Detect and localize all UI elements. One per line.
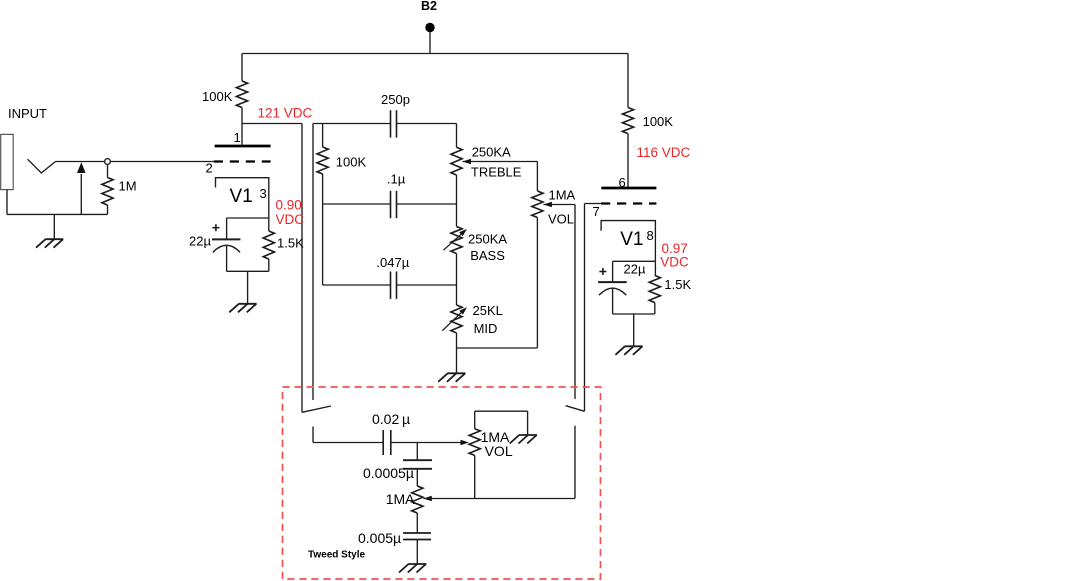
treble wiper arrow — [463, 159, 538, 165]
label 0.0005u — [363, 465, 414, 481]
label 0.02u — [372, 411, 410, 427]
svg-text:0.005µ: 0.005µ — [358, 530, 401, 546]
svg-text:V1: V1 — [230, 186, 253, 207]
resistor 100K plate V1b — [622, 108, 633, 134]
capacitor 0.005u — [403, 533, 431, 540]
pin 7 label — [593, 204, 600, 219]
svg-text:3: 3 — [260, 186, 267, 201]
capacitor 22u V1b — [598, 282, 627, 314]
node jack tip terminal — [105, 159, 111, 165]
ground cathode V1b — [615, 346, 642, 355]
svg-text:100K: 100K — [336, 155, 367, 170]
resistor 1.5K V1a — [263, 218, 274, 271]
wire grid pin 7 — [585, 203, 603, 205]
svg-text:0.90: 0.90 — [276, 198, 302, 213]
wire slope branch — [322, 124, 324, 148]
potentiometer 1MA VOL — [532, 191, 543, 218]
svg-text:0.02 µ: 0.02 µ — [372, 411, 410, 427]
label 0.005u — [358, 530, 401, 546]
capacitor 250p — [391, 110, 397, 137]
label .1u — [387, 171, 406, 186]
svg-text:Tweed Style: Tweed Style — [308, 550, 365, 561]
resistor 100K plate V1a — [236, 81, 247, 108]
label 1.5K B — [664, 277, 691, 292]
capacitor 22u V1a — [212, 239, 240, 271]
bass rheostat arrow — [443, 229, 467, 250]
potentiometer 1MA tweed VOL — [469, 429, 480, 456]
switch SW1 blade — [302, 406, 331, 412]
svg-text:2: 2 — [206, 161, 213, 176]
wire R 100K to plate pin 6 — [627, 134, 629, 188]
wire grid down to switch pole — [584, 204, 586, 412]
svg-text:1MA: 1MA — [386, 491, 415, 507]
svg-text:100K: 100K — [202, 89, 233, 104]
label 22u B — [624, 262, 646, 277]
wire tweed out up to switch — [574, 426, 576, 499]
node B2 label — [421, 0, 437, 13]
svg-text:22µ: 22µ — [189, 234, 211, 249]
wire tweed vol bottom — [474, 455, 476, 498]
label Tweed Style — [308, 550, 365, 561]
svg-text:VOL: VOL — [485, 443, 513, 459]
jack tip contact — [28, 159, 56, 173]
wire to cap 22u A — [226, 218, 228, 239]
label 100K right — [643, 114, 674, 129]
wire R 1M to ground bus — [107, 205, 109, 214]
svg-text:VDC: VDC — [276, 212, 305, 227]
label 250p — [381, 92, 410, 107]
ground tweed vol — [510, 435, 537, 444]
capacitor 22u V1b plus — [599, 268, 606, 275]
potentiometer 1MA tweed tone — [412, 486, 423, 513]
wire to ground B — [633, 314, 635, 346]
wire R 100K to plate pin 1 — [241, 108, 243, 147]
wire 0.005u to ground — [416, 540, 418, 565]
resistor 1M grid — [102, 178, 113, 206]
label 250KA bass — [468, 232, 507, 264]
capacitor 0.0005u — [403, 460, 432, 469]
label 0.90 VDC — [276, 198, 305, 227]
wire B2 to bus — [429, 32, 431, 54]
wire cathode junction V1b — [613, 260, 656, 262]
label 1MA VOL tweed — [481, 429, 513, 459]
wire switch out to 0.02u — [313, 427, 383, 443]
wire tip to R 1M — [107, 164, 109, 177]
svg-text:250KA: 250KA — [472, 144, 511, 159]
wire right rail to treble — [456, 124, 458, 148]
wire cathode bottom A — [227, 270, 269, 272]
svg-text:8: 8 — [647, 228, 654, 243]
mid rheostat arrow — [442, 307, 467, 331]
svg-text:25KL: 25KL — [473, 303, 503, 318]
label 1.5K A — [277, 236, 304, 251]
label 121 VDC — [258, 106, 313, 121]
label 116 VDC — [637, 145, 691, 160]
label .047u — [376, 255, 409, 270]
wire tone stack bottom — [457, 347, 538, 349]
wire 0.02u to vol wiper — [391, 440, 469, 446]
wire grid V1a — [56, 161, 214, 163]
svg-text:22µ: 22µ — [624, 262, 646, 277]
svg-text:250KA: 250KA — [468, 232, 507, 247]
wire bus to R 100K left — [241, 54, 243, 82]
triode V1b cathode — [601, 221, 655, 262]
wire switch contact left vertical — [312, 124, 314, 401]
switch SW2 blade — [566, 406, 585, 412]
wire vol wiper down to switch — [574, 205, 576, 400]
wire to input ground — [53, 214, 55, 239]
svg-text:INPUT: INPUT — [8, 106, 47, 121]
svg-text:1M: 1M — [119, 179, 137, 194]
vol wiper arrow — [543, 202, 575, 208]
svg-text:TREBLE: TREBLE — [471, 165, 522, 180]
ground cathode V1a — [229, 304, 256, 313]
wire node down to 0.0005u — [416, 443, 418, 461]
resistor 1.5K V1b — [649, 261, 660, 314]
ground input jack — [36, 239, 63, 248]
triode V1b plate — [601, 187, 656, 190]
label V1 b — [620, 229, 643, 250]
wire cathode bottom B — [613, 313, 655, 315]
wire bass to mid — [456, 254, 458, 306]
svg-text:100K: 100K — [643, 114, 674, 129]
svg-text:V1: V1 — [620, 229, 643, 250]
capacitor .047u — [391, 272, 397, 299]
ground tone stack — [438, 373, 465, 382]
wire treble out to vol — [536, 162, 538, 192]
wire cathode junction V1a — [227, 217, 269, 219]
label 250KA treble — [471, 144, 522, 179]
svg-text:.1µ: .1µ — [387, 171, 406, 186]
wire bus to R 100K right — [627, 54, 629, 108]
label 1MA vol — [548, 188, 576, 227]
wire jack sleeve — [7, 190, 108, 215]
potentiometer 25KL MID — [451, 305, 462, 333]
wire mid to bottom — [456, 333, 458, 348]
svg-text:.047µ: .047µ — [376, 255, 409, 270]
svg-text:1.5K: 1.5K — [277, 236, 304, 251]
resistor 100K slope — [317, 147, 328, 174]
label 100K left — [202, 89, 233, 104]
wire 1MA to 0.005u — [416, 513, 418, 533]
svg-text:1.5K: 1.5K — [664, 277, 691, 292]
triode V1b grid — [601, 202, 656, 204]
triode V1a grid — [214, 160, 271, 162]
wire vol bottom — [536, 218, 538, 349]
wire .047u branch — [323, 284, 457, 286]
pin 6 label — [619, 175, 626, 190]
tweed style dashed box — [283, 387, 601, 579]
svg-text:7: 7 — [593, 204, 600, 219]
svg-text:0.0005µ: 0.0005µ — [363, 465, 414, 481]
wire 0.0005u to 1MA — [416, 469, 418, 486]
capacitor 22u V1a plus — [212, 224, 219, 231]
wire slope rail down — [322, 174, 324, 285]
jack J1 body — [1, 134, 14, 189]
label 0.97 VDC — [660, 241, 689, 269]
svg-text:6: 6 — [619, 175, 626, 190]
wire plate junction to switch pole — [242, 123, 302, 125]
svg-text:VOL: VOL — [548, 212, 574, 227]
wire .1u branch — [323, 203, 457, 205]
potentiometer 250KA TREBLE — [451, 147, 462, 175]
svg-text:MID: MID — [474, 321, 498, 336]
svg-text:BASS: BASS — [470, 248, 505, 263]
triode V1a plate — [215, 145, 271, 148]
svg-text:1: 1 — [234, 130, 241, 145]
pin 8 label — [647, 228, 654, 243]
tweed tone wiper arrow — [423, 496, 575, 502]
ground tweed tone — [399, 564, 426, 573]
wire to ground A — [247, 271, 249, 304]
wire tone stack top rail — [313, 123, 457, 125]
label INPUT — [8, 106, 47, 121]
potentiometer 250KA BASS — [451, 227, 462, 254]
pin 1 label — [234, 130, 241, 145]
triode V1a cathode — [216, 178, 269, 218]
label 100K slope — [336, 155, 367, 170]
svg-text:VDC: VDC — [660, 254, 689, 269]
wire to cap 22u B — [612, 261, 614, 282]
label 1M — [119, 179, 137, 194]
jack shorting arrow — [77, 162, 86, 214]
wire to tone ground — [456, 348, 458, 373]
wire treble to bass — [456, 175, 458, 227]
wire switch pole left vertical — [301, 124, 303, 413]
svg-text:250p: 250p — [381, 92, 410, 107]
label 25KL mid — [473, 303, 503, 336]
label 1MA tweed tone — [386, 491, 415, 507]
wire B+ bus — [242, 53, 628, 55]
capacitor .1u — [391, 191, 397, 218]
op-amp U1 none V1 label — [230, 186, 253, 207]
wire tweed vol top to ground — [475, 411, 528, 435]
pin 2 label — [206, 161, 213, 176]
svg-text:1MA: 1MA — [549, 188, 576, 203]
label 22u A — [189, 234, 211, 249]
node B2 terminal dot — [425, 23, 434, 32]
capacitor 0.02u — [383, 430, 391, 455]
svg-text:116 VDC: 116 VDC — [637, 145, 691, 160]
svg-text:B2: B2 — [421, 0, 437, 13]
svg-text:121 VDC: 121 VDC — [258, 106, 313, 121]
pin 3 label — [260, 186, 267, 201]
